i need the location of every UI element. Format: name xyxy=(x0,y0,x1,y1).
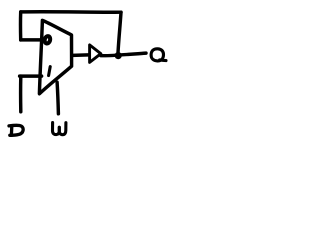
wire D vertical xyxy=(19,76,23,112)
label W (write-enable input) xyxy=(53,123,66,135)
node junction dot xyxy=(115,52,122,59)
wire mux output xyxy=(73,53,89,57)
wire 0-input (feedback into mux) xyxy=(21,38,42,41)
wire buffer output to Q xyxy=(101,53,146,56)
buffer U2 triangle xyxy=(90,45,101,63)
label 1 (mux input 1) xyxy=(49,67,51,76)
mux U1 trapezoid xyxy=(39,20,71,93)
label 0 (mux input 0) xyxy=(44,35,51,44)
wire 1-input from D xyxy=(20,74,42,77)
wire feedback left vertical xyxy=(19,12,23,40)
wire W select vertical xyxy=(57,82,58,114)
label D (data input) xyxy=(9,125,23,135)
wire feedback top horizontal xyxy=(21,10,121,14)
wire feedback right vertical xyxy=(118,12,121,55)
label Q (output) xyxy=(151,49,166,61)
